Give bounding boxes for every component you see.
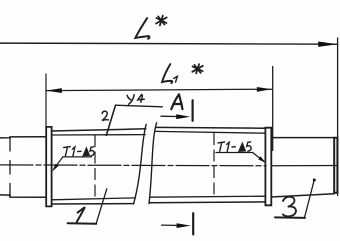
hidden dashed edge x=214 xyxy=(213,134,215,197)
leader T1-D5 left xyxy=(54,157,63,170)
extension line right (L*) xyxy=(337,38,339,196)
left stub top edge xyxy=(0,137,46,138)
section bar top xyxy=(192,100,194,121)
break line right xyxy=(149,123,157,204)
leader T1-D5 right xyxy=(253,153,264,162)
tube right portion top outer xyxy=(156,126,265,129)
hidden dashed edge x=10 xyxy=(9,138,11,198)
tube right portion bottom inner xyxy=(150,196,266,197)
label T1-D5 right xyxy=(218,142,251,152)
extension line right (L1) xyxy=(272,67,274,151)
section arrow top xyxy=(161,115,182,117)
section letter A xyxy=(171,94,182,109)
break line left xyxy=(134,124,147,203)
hidden dashed edge x=95 xyxy=(94,136,96,198)
right cylinder bottom edge xyxy=(271,194,334,197)
right flange xyxy=(265,128,271,206)
underline of 1 xyxy=(68,222,97,225)
extension line left (L1) xyxy=(45,74,47,127)
L1 right arrow xyxy=(257,87,272,92)
right end cap xyxy=(334,138,337,193)
dimension L* arrow xyxy=(318,42,337,47)
shelf under T1-D5 left xyxy=(63,156,92,158)
tube left portion top inner xyxy=(52,134,146,136)
label T1-D5 left xyxy=(64,147,94,156)
subscript 1 of L1 xyxy=(174,76,178,82)
dimension L1 line xyxy=(46,89,272,90)
tube right portion top inner xyxy=(156,131,266,133)
tube left portion bottom inner xyxy=(52,198,135,200)
roughness value text y4 xyxy=(127,94,144,104)
tube left portion top outer xyxy=(52,129,146,131)
leader of 3 xyxy=(305,180,315,217)
callout digit 1 xyxy=(77,207,85,222)
centerline xyxy=(0,164,266,167)
asterisk of L1 xyxy=(192,64,203,73)
left stub bottom edge xyxy=(0,195,46,197)
underline of 3 xyxy=(275,216,305,219)
roughness mark leg / leader 2 xyxy=(106,105,115,135)
right cylinder top edge xyxy=(271,137,334,139)
L1 left arrow xyxy=(46,88,62,93)
tube left portion bottom outer xyxy=(52,203,134,205)
shelf under T1-D5 right xyxy=(216,152,253,154)
label L (of L*) xyxy=(135,18,149,39)
callout digit 2 xyxy=(102,111,108,120)
label L1 xyxy=(162,64,172,83)
left flange xyxy=(46,127,51,206)
callout digit 3 xyxy=(283,197,296,217)
asterisk of L* xyxy=(156,16,167,26)
section bar bottom xyxy=(192,213,194,234)
roughness mark bar xyxy=(116,105,163,107)
leader of 1 xyxy=(96,189,107,224)
section arrow bottom xyxy=(162,224,183,226)
dimension L* line xyxy=(0,43,338,44)
tube right portion bottom outer xyxy=(149,201,265,204)
